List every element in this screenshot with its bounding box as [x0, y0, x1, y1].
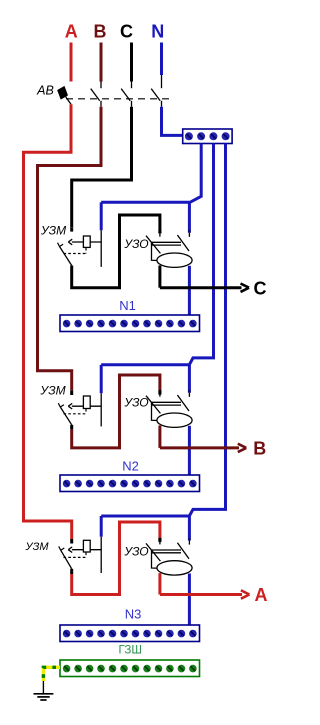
- relay UZM2 coil feed line: [72, 405, 101, 407]
- relay UZM2 fixed contact arrow: [68, 403, 72, 409]
- RCD UZO1 left pole contact tip: [158, 230, 161, 233]
- wire neutral drop to UZM3 coil: [100, 516, 103, 537]
- relay UZM3 output contact tip: [70, 569, 73, 574]
- wire phase output C: [160, 286, 242, 289]
- wire UZO1 input contact tip: [158, 230, 161, 233]
- RCD UZO1 right pole contact tip: [188, 230, 191, 233]
- wire neutral: breaker to terminal block: [162, 107, 184, 136]
- wire neutral branch to UZO3: [188, 516, 191, 537]
- RCD UZO3 left pole contact tip: [158, 538, 161, 541]
- wire neutral feed 2: block to section 2 junction: [101, 144, 213, 365]
- svg-text:A: A: [65, 22, 78, 42]
- RCD UZO3 left switch blade: [146, 543, 160, 561]
- RCD UZO2 right pole contact tip: [188, 390, 191, 393]
- wire neutral branch to UZO2: [188, 365, 191, 390]
- relay UZM2 switch blade: [58, 403, 71, 425]
- RCD UZO3 right pole contact tip: [188, 537, 191, 540]
- wire phase out of UZO3: [158, 573, 161, 594]
- wire phase out of UZO2: [158, 425, 161, 448]
- svg-text:N3: N3: [125, 607, 142, 622]
- wire PE (yellow-green) to GZSh: [43, 667, 60, 681]
- svg-text:C: C: [254, 278, 267, 298]
- relay UZM3 fixed contact arrow: [68, 547, 72, 553]
- RCD UZO1 right switch blade: [177, 235, 189, 251]
- circuit breaker AB mechanical link (dashed): [66, 98, 171, 100]
- wire phase out of UZO1: [158, 265, 161, 287]
- terminal block N2 (12 screws): [60, 475, 200, 492]
- RCD UZO2 right switch blade: [177, 395, 189, 411]
- wire neutral feed 3: block to section 3 junction: [101, 144, 225, 517]
- svg-text:B: B: [94, 22, 107, 42]
- relay UZM1 fixed contact arrow: [68, 239, 72, 245]
- RCD UZO1 sensor box: [152, 242, 159, 260]
- wire phase B: breaker to UZM2 (left drop): [38, 107, 102, 391]
- terminal block N1 (12 screws): [60, 315, 200, 332]
- wire phase C: breaker to UZM1: [72, 107, 132, 228]
- svg-text:B: B: [253, 438, 266, 458]
- svg-text:N2: N2: [122, 459, 139, 474]
- RCD UZO2 left switch blade: [146, 396, 160, 414]
- relay UZM3 mechanical link (dashed): [64, 553, 87, 558]
- RCD UZO2 left pole stub: [159, 393, 161, 396]
- relay UZM2 mechanical link (dashed): [64, 409, 87, 414]
- RCD UZO1 differential transformer toroid: [157, 253, 192, 267]
- svg-text:A: A: [255, 585, 268, 605]
- wire phase output A: [160, 593, 242, 596]
- output arrow B: [238, 444, 247, 452]
- wire neutral N incoming stub: [160, 43, 163, 76]
- RCD UZO1 link bar (double line): [151, 242, 181, 245]
- relay UZM2 coil: [83, 396, 90, 409]
- wire neutral out of UZO3: [188, 574, 191, 626]
- circuit breaker AB pole 1 (phase A) actuator box: [58, 87, 71, 105]
- wire phase output B: [160, 446, 239, 449]
- terminal block X0 (neutral splitter, 4 screws): [183, 129, 232, 144]
- circuit breaker AB pole 3 (phase C): [121, 81, 131, 107]
- relay UZM3 coil: [83, 540, 90, 552]
- relay UZM1 neutral wire (thin): [100, 230, 102, 267]
- svg-text:УЗМ: УЗМ: [24, 541, 49, 553]
- svg-text:N: N: [151, 22, 164, 42]
- circuit breaker AB pole 2 (phase B): [91, 81, 101, 107]
- output arrow A: [241, 590, 250, 598]
- relay UZM1 coil: [83, 236, 90, 247]
- wire phase U-link section 2 (UZM out to UZO in): [72, 375, 160, 448]
- RCD UZO2 link bar (double line): [151, 402, 181, 405]
- RCD UZO2 left pole contact tip: [158, 390, 161, 393]
- wire UZO3 input contact tip: [158, 538, 161, 542]
- relay UZM1 coil feed line: [72, 241, 101, 243]
- wire neutral drop to UZM2 coil: [100, 365, 103, 393]
- RCD UZO1 left switch blade: [146, 236, 160, 254]
- svg-text:УЗМ: УЗМ: [40, 223, 66, 237]
- RCD UZO2 right pole stub: [188, 393, 190, 397]
- relay UZM2 output contact tip: [70, 425, 73, 430]
- svg-text:C: C: [120, 22, 133, 42]
- wire phase A incoming stub: [70, 43, 73, 82]
- terminal block N3 (12 screws): [60, 625, 200, 642]
- wire neutral out of UZO1: [188, 266, 191, 315]
- relay UZM3 neutral wire (thin): [100, 537, 102, 573]
- wire phase B incoming stub: [100, 43, 103, 82]
- svg-text:УЗО: УЗО: [123, 545, 148, 559]
- RCD UZO1 left pole stub: [159, 233, 161, 236]
- svg-text:N1: N1: [119, 298, 136, 313]
- relay UZM2 contact tip: [70, 390, 73, 395]
- RCD UZO2 sensor box: [152, 402, 159, 420]
- relay UZM1 output contact tip: [70, 266, 73, 270]
- RCD UZO3 link bar (double line): [151, 550, 181, 553]
- wire neutral drop to UZM1 coil: [100, 202, 103, 230]
- relay UZM3 coil feed line: [72, 549, 101, 551]
- wire UZO2 input contact tip: [158, 391, 161, 395]
- RCD UZO3 sensor box: [152, 550, 159, 568]
- svg-text:ГЗШ: ГЗШ: [118, 645, 141, 657]
- wire phase U-link section 3 (UZM out to UZO in): [72, 522, 160, 595]
- relay UZM1 contact tip: [70, 228, 73, 232]
- relay UZM1 mechanical link (dashed): [64, 248, 87, 254]
- busbar GZSh terminal block (12 screws): [60, 660, 200, 677]
- output arrow C: [241, 284, 250, 292]
- svg-text:УЗМ: УЗМ: [39, 384, 65, 398]
- wire phase A: breaker to UZM3 (left drop): [24, 104, 72, 539]
- relay UZM1 switch blade: [58, 243, 72, 266]
- svg-text:АВ: АВ: [36, 84, 54, 98]
- relay UZM2 neutral wire (thin): [100, 393, 102, 426]
- RCD UZO3 differential transformer toroid: [157, 561, 192, 575]
- wire phase C incoming stub: [130, 43, 133, 82]
- RCD UZO3 right switch blade: [177, 543, 189, 559]
- svg-text:УЗО: УЗО: [123, 237, 148, 251]
- wire neutral branch to UZO1: [188, 202, 191, 230]
- RCD UZO3 right pole stub: [188, 541, 190, 545]
- svg-text:УЗО: УЗО: [123, 396, 148, 410]
- relay UZM3 switch blade: [59, 546, 72, 568]
- wire neutral feed 1: block to section 1 junction: [101, 144, 201, 203]
- RCD UZO2 differential transformer toroid: [157, 413, 192, 427]
- relay UZM3 contact tip: [70, 539, 73, 544]
- RCD UZO3 left pole stub: [159, 541, 161, 544]
- wire neutral out of UZO2: [188, 426, 191, 475]
- RCD UZO1 right pole stub: [188, 233, 190, 237]
- ground electrode symbol: [34, 681, 54, 700]
- circuit breaker AB pole 4 (neutral): [151, 75, 161, 107]
- wire phase U-link section 1 (UZM out to UZO in): [72, 215, 160, 288]
